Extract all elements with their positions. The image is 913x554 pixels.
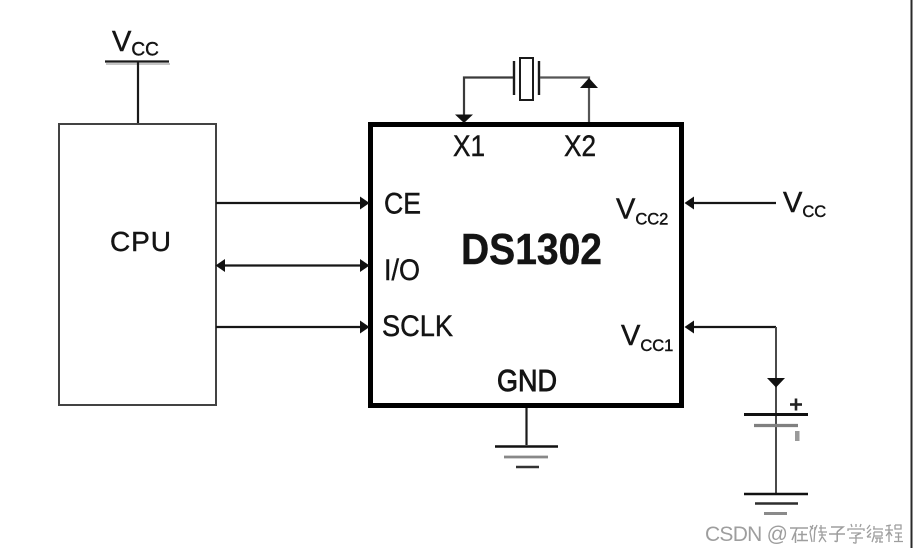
ground (battery) — [744, 494, 808, 514]
wire CE (CPU to DS1302) — [216, 197, 370, 210]
svg-text:CSDN @: CSDN @ — [705, 523, 788, 546]
watermark glyph 在 — [790, 528, 808, 543]
wire GND pin to ground — [525, 408, 527, 445]
wire SCLK — [216, 321, 370, 334]
svg-text:CE: CE — [384, 188, 421, 221]
watermark glyph 子 — [829, 527, 845, 542]
battery BT1 — [744, 399, 808, 442]
DS1302 U1 box — [371, 125, 682, 406]
svg-text:DS1302: DS1302 — [461, 225, 602, 274]
svg-text:I/O: I/O — [384, 254, 420, 287]
wire battery to VCC1 — [685, 321, 786, 495]
watermark glyph 猴 — [810, 525, 827, 542]
wire VCC supply to VCC2 — [685, 197, 777, 210]
svg-text:GND: GND — [497, 363, 557, 398]
svg-text:SCLK: SCLK — [382, 310, 453, 343]
svg-text:X2: X2 — [564, 130, 596, 163]
wire crystal to X1 — [455, 78, 513, 124]
svg-text:X1: X1 — [453, 130, 485, 163]
wire VCC to CPU top — [137, 62, 139, 124]
power symbol VCC (top-left supply) — [105, 26, 170, 64]
watermark glyph 学 — [848, 524, 864, 543]
crystal Y1 — [514, 58, 539, 100]
watermark glyph 程 — [885, 525, 903, 542]
right border line — [911, 0, 913, 548]
watermark glyph 编 — [867, 525, 883, 542]
CPU U2 box — [59, 124, 216, 405]
ground (chip GND) — [495, 447, 558, 468]
svg-text:VCC: VCC — [783, 187, 826, 221]
svg-text:VCC: VCC — [112, 26, 159, 61]
wire crystal to X2 — [540, 78, 598, 123]
wire I/O (bidirectional) — [216, 259, 370, 272]
svg-text:CPU: CPU — [110, 226, 171, 257]
